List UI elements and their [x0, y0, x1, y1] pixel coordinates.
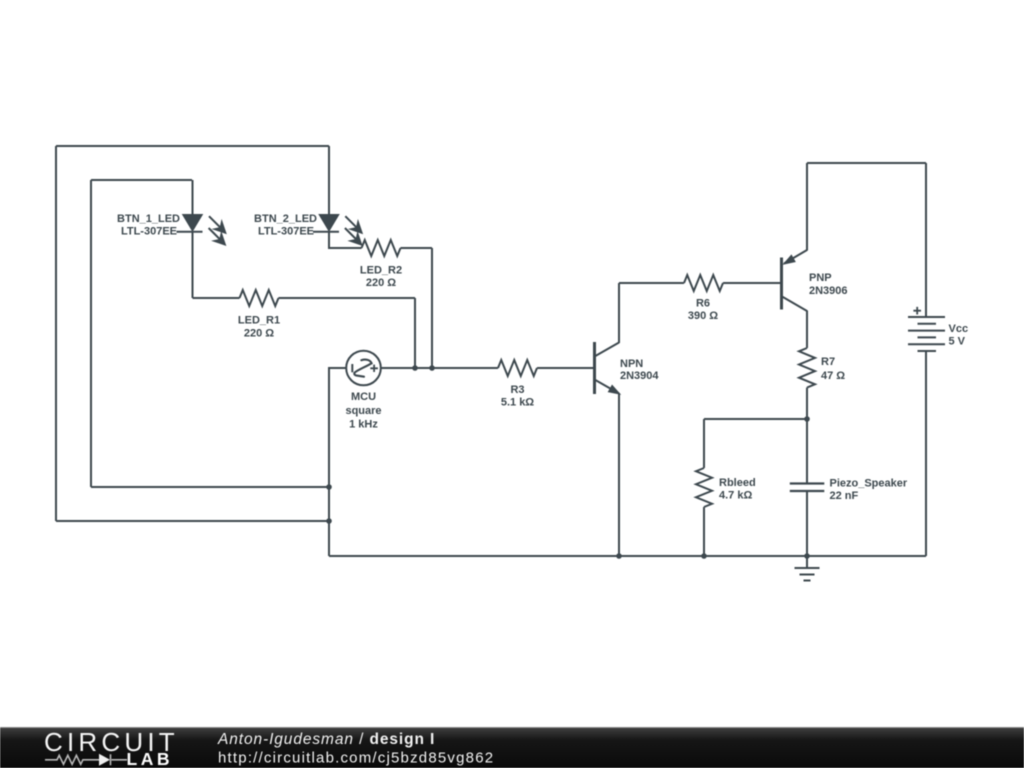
logo LAB: [127, 749, 173, 768]
wire outer loop top: [56, 145, 329, 147]
svg-text:220 Ω: 220 Ω: [366, 277, 396, 289]
footer title Anton-Igudesman / design I: [217, 731, 435, 748]
wire MCU right lead: [381, 367, 498, 369]
voltage source MCU minus terminal: [351, 364, 353, 372]
svg-text:NPN: NPN: [620, 358, 643, 370]
label Vcc 5V: [949, 323, 969, 348]
wire LED1 cathode: [192, 232, 194, 298]
svg-text:Anton-Igudesman / design I: Anton-Igudesman / design I: [217, 731, 435, 748]
capacitor Piezo_Speaker: [790, 484, 825, 492]
wire LED_R1 down to node: [414, 298, 416, 368]
svg-text:Rbleed: Rbleed: [719, 477, 756, 489]
wire inner loop left: [90, 180, 92, 487]
label LED_R2 220: [360, 265, 402, 290]
wire battery bottom lead: [925, 351, 927, 556]
transistor NPN emitter with arrow: [595, 380, 620, 557]
transistor NPN collector: [595, 283, 620, 357]
svg-text:R6: R6: [696, 297, 710, 309]
resistor R7: [799, 348, 815, 388]
wire LED_R1 right lead: [279, 297, 416, 299]
svg-text:http://circuitlab.com/cj5bzd85: http://circuitlab.com/cj5bzd85vg862: [218, 750, 494, 767]
svg-text:R3: R3: [510, 384, 524, 396]
svg-text:BTN_1_LED: BTN_1_LED: [117, 213, 180, 225]
resistor R3: [498, 360, 537, 376]
LED BTN_1_LED arrows: [209, 216, 226, 244]
wire R3 to NPN base: [537, 367, 594, 369]
wire outer loop left: [55, 146, 57, 521]
wire PNP emitter up: [806, 163, 808, 251]
wire inner loop top: [91, 179, 192, 181]
LED BTN_1_LED: [177, 215, 203, 232]
label BTN_2_LED LTL-307EE: [254, 213, 317, 238]
label LED_R1 220: [238, 315, 280, 340]
voltage source MCU square-wave glyph: [354, 360, 371, 377]
svg-text:LED_R2: LED_R2: [360, 265, 402, 277]
svg-text:square: square: [345, 405, 381, 417]
svg-text:PNP: PNP: [809, 272, 832, 284]
footer url: [218, 750, 494, 767]
svg-text:LAB: LAB: [127, 749, 173, 768]
ground: [795, 556, 820, 581]
transistor NPN Q1 base bar: [593, 342, 596, 394]
wire inner loop bottom: [91, 486, 329, 488]
label NPN 2N3904: [620, 358, 659, 382]
LED BTN_2_LED: [313, 215, 339, 232]
wire piezo top lead: [806, 419, 808, 484]
label Rbleed 4.7k: [719, 477, 756, 502]
svg-text:220 Ω: 220 Ω: [244, 328, 274, 340]
wire battery top lead: [925, 163, 927, 317]
svg-text:LTL-307EE: LTL-307EE: [258, 226, 314, 238]
resistor R6: [684, 275, 723, 291]
label PNP 2N3906: [809, 272, 848, 297]
wire LED_R2 right lead: [401, 247, 433, 249]
svg-text:22 nF: 22 nF: [830, 490, 859, 502]
wire piezo bottom lead: [806, 491, 808, 556]
resistor LED_R1: [240, 290, 279, 306]
label R3 5.1k: [501, 384, 534, 409]
wire R6 left lead: [619, 282, 684, 284]
svg-text:47 Ω: 47 Ω: [821, 370, 845, 382]
logo CIRCUIT wordmark: [44, 727, 179, 757]
wire LED_R1 left lead: [193, 297, 240, 299]
label R6 390: [688, 297, 718, 322]
svg-text:LED_R1: LED_R1: [238, 315, 280, 327]
logo resistor-diode glyph: [45, 754, 127, 765]
svg-text:Piezo_Speaker: Piezo_Speaker: [830, 477, 908, 489]
svg-text:Vcc: Vcc: [949, 323, 969, 335]
wire LED2 cathode: [329, 232, 362, 248]
logo diode triangle: [99, 754, 110, 766]
wire MCU left lead to bottom rail: [329, 368, 346, 556]
wire bottom rail: [329, 555, 926, 557]
wire outer loop bottom: [56, 520, 329, 522]
svg-text:R7: R7: [821, 356, 835, 368]
wire Rbleed top lead: [703, 419, 705, 468]
svg-text:LTL-307EE: LTL-307EE: [121, 226, 177, 238]
battery plus sign: [913, 307, 921, 315]
svg-text:1 kHz: 1 kHz: [349, 419, 378, 431]
wire LED1 anode: [192, 180, 194, 215]
battery Vcc: [908, 317, 945, 351]
footer bar: [0, 727, 1024, 768]
label R7 47: [821, 356, 845, 382]
svg-text:BTN_2_LED: BTN_2_LED: [254, 213, 317, 225]
resistor Rbleed: [696, 468, 712, 507]
svg-text:MCU: MCU: [351, 391, 376, 403]
resistor LED_R2: [362, 240, 401, 256]
wire top rail: [807, 162, 926, 164]
wire branch R7 to Rbleed: [704, 418, 807, 420]
transistor PNP Q2 base bar: [780, 258, 783, 310]
svg-text:390 Ω: 390 Ω: [688, 310, 718, 322]
label BTN_1_LED LTL-307EE: [117, 213, 180, 238]
wire LED2 anode: [328, 146, 330, 215]
voltage source MCU circle: [346, 351, 381, 386]
svg-text:5.1 kΩ: 5.1 kΩ: [501, 397, 534, 409]
transistor PNP emitter with arrow: [784, 250, 807, 264]
junction node dots: [326, 365, 810, 559]
LED BTN_2_LED arrows: [345, 216, 362, 244]
wire LED_R2 down to node: [431, 248, 433, 368]
transistor PNP collector: [782, 297, 807, 349]
wire Rbleed bottom lead: [703, 507, 705, 556]
label Piezo_Speaker 22nF: [830, 477, 908, 502]
svg-text:2N3906: 2N3906: [809, 285, 848, 297]
svg-text:5 V: 5 V: [949, 336, 966, 348]
wire R6 right lead: [723, 282, 780, 284]
voltage source MCU plus terminal: [370, 365, 378, 372]
wire R7 bottom lead: [806, 388, 808, 419]
svg-text:2N3904: 2N3904: [620, 370, 659, 382]
svg-text:4.7 kΩ: 4.7 kΩ: [719, 490, 752, 502]
label MCU square 1kHz: [345, 391, 381, 430]
